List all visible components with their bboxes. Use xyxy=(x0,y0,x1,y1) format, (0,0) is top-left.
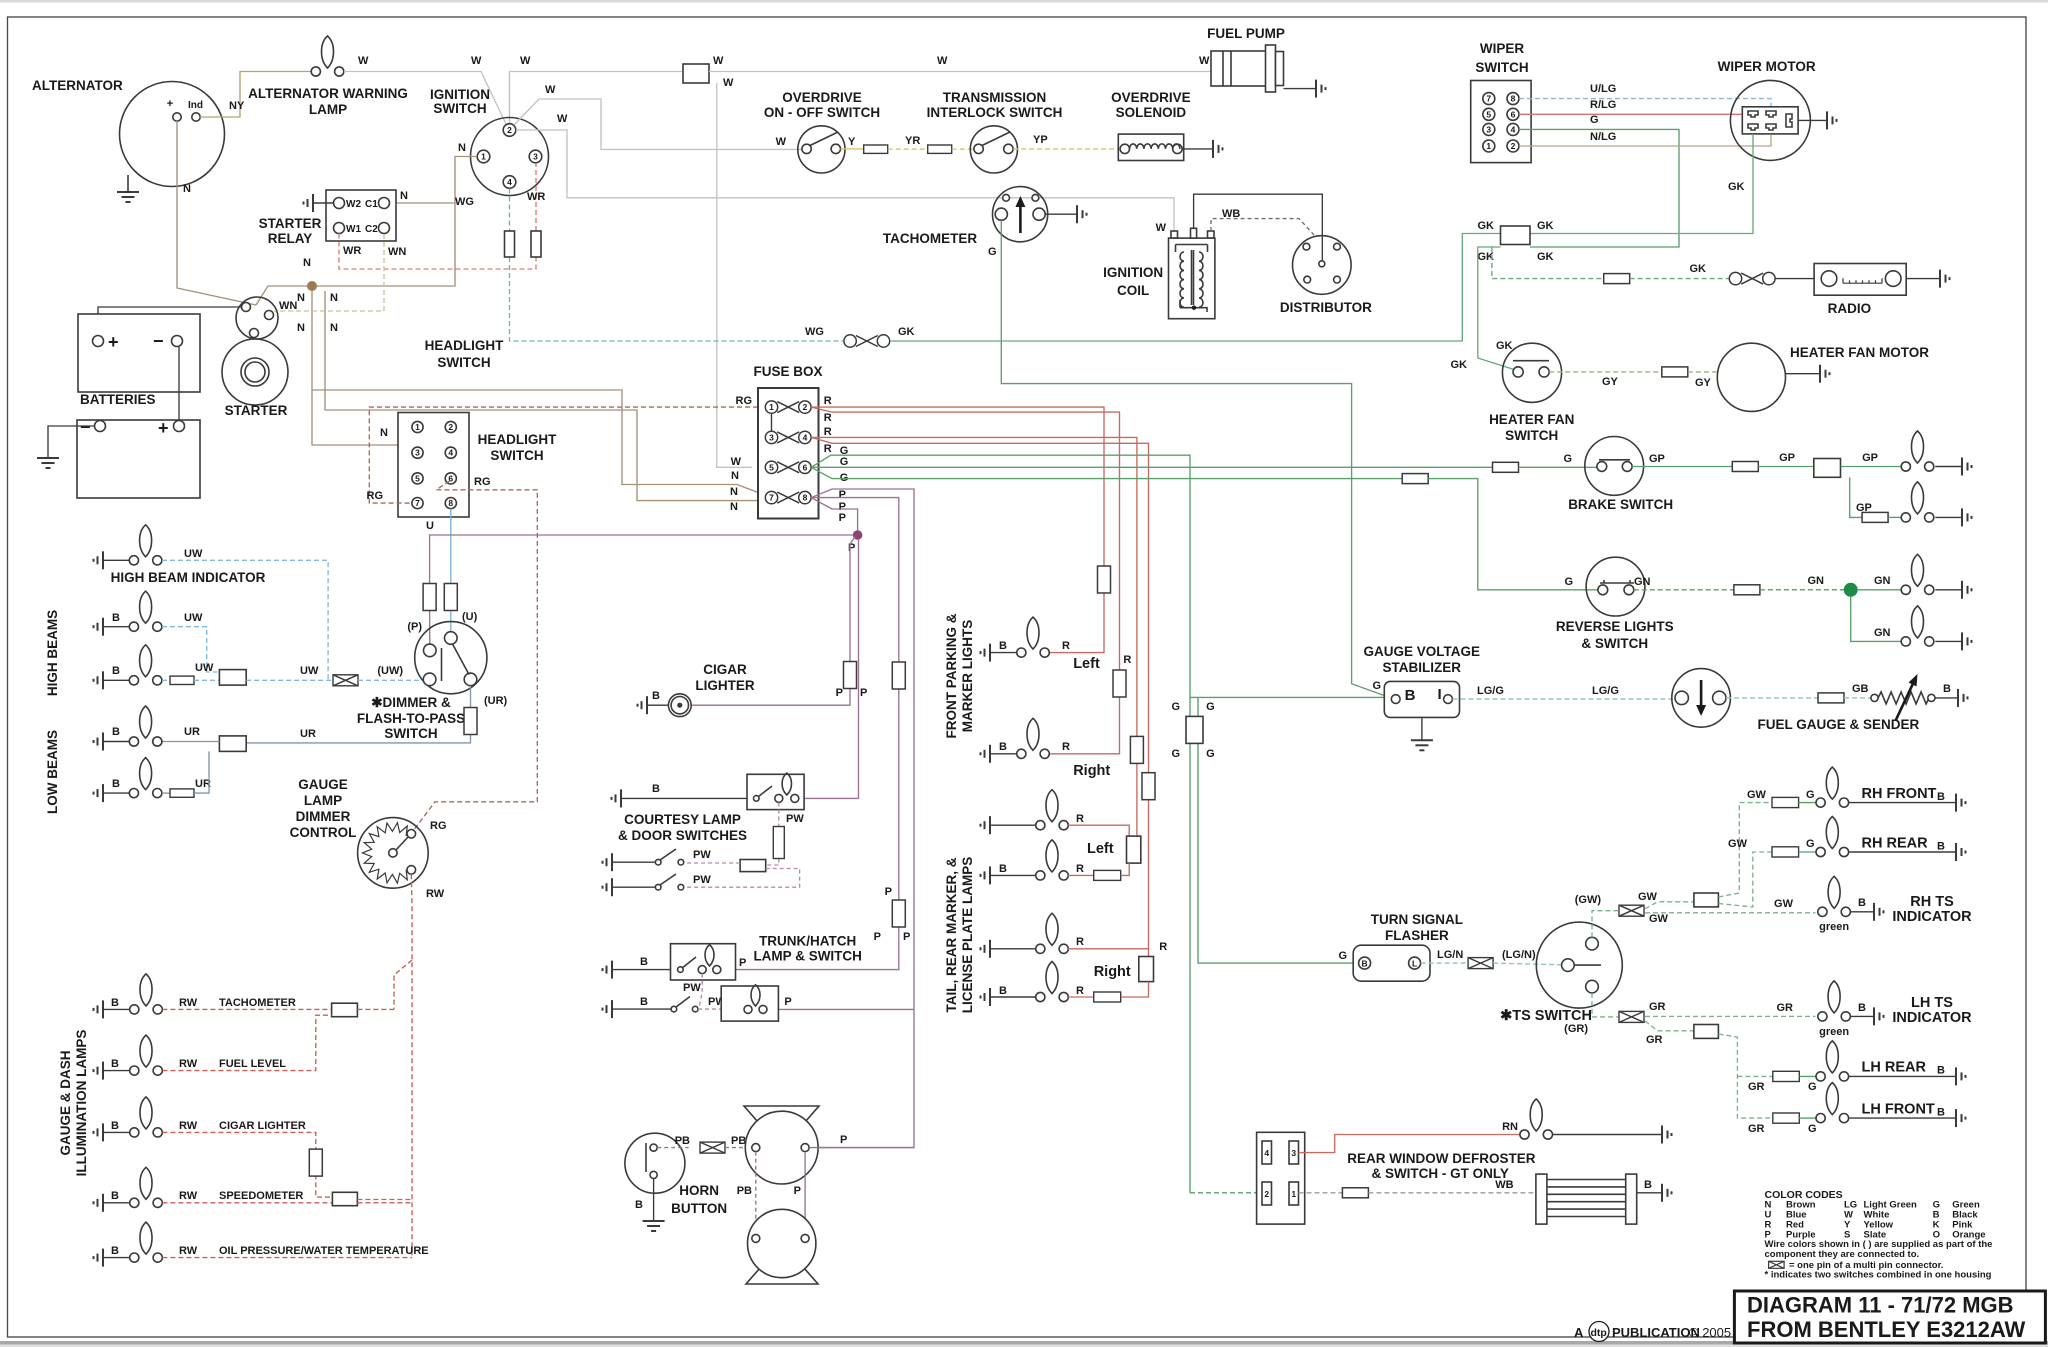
svg-text:N: N xyxy=(731,470,739,482)
wire P branch1 tap to license box xyxy=(778,1008,914,1010)
svg-text:B: B xyxy=(1858,897,1866,909)
svg-text:Ind: Ind xyxy=(188,100,203,111)
ground wiper motor xyxy=(1827,111,1837,129)
svg-text:SWITCH: SWITCH xyxy=(437,355,490,370)
wire N starter relay C1 to N bus xyxy=(390,202,455,204)
svg-text:N: N xyxy=(183,183,191,195)
svg-text:N: N xyxy=(297,322,305,334)
wire UR box to low beam 1 xyxy=(162,741,219,743)
svg-text:N: N xyxy=(400,190,408,202)
svg-text:B: B xyxy=(640,996,648,1008)
svg-text:LH FRONT: LH FRONT xyxy=(1862,1102,1935,1118)
svg-text:BRAKE SWITCH: BRAKE SWITCH xyxy=(1568,497,1673,512)
svg-text:B: B xyxy=(1937,841,1945,853)
defroster switch connector xyxy=(1257,1132,1305,1224)
svg-text:B: B xyxy=(1644,1179,1652,1191)
high beam lamp 2 xyxy=(129,645,162,685)
wire GP to lamp xyxy=(1888,516,1901,518)
svg-text:REVERSE LIGHTS: REVERSE LIGHTS xyxy=(1556,619,1674,634)
wire solenoid to ground xyxy=(1182,148,1213,150)
svg-text:G: G xyxy=(840,456,849,468)
svg-text:WG: WG xyxy=(455,196,474,208)
svg-text:3: 3 xyxy=(1486,124,1491,134)
wire N/LG wiper switch pin2 to motor xyxy=(1519,135,1771,146)
wire G to LH FRONT lamp xyxy=(1799,1117,1815,1119)
wire defroster grid to ground xyxy=(1637,1192,1662,1194)
svg-text:RG: RG xyxy=(430,820,447,832)
publication mark xyxy=(1574,1322,1731,1342)
svg-text:W: W xyxy=(937,55,948,67)
svg-text:GK: GK xyxy=(1451,359,1468,371)
svg-text:B: B xyxy=(112,612,120,624)
wire fuse link 1-3 xyxy=(771,413,773,431)
svg-text:G: G xyxy=(1564,576,1573,588)
connector P trunk upper xyxy=(892,662,905,689)
wire G fuse pin6 to brake switch xyxy=(811,466,1492,468)
svg-text:GR: GR xyxy=(1646,1034,1663,1046)
lamp tail right D xyxy=(1036,962,1069,1002)
svg-text:1: 1 xyxy=(1486,141,1491,151)
svg-text:GAUGE & DASH: GAUGE & DASH xyxy=(58,1050,73,1155)
svg-text:8: 8 xyxy=(448,498,453,508)
svg-text:STABILIZER: STABILIZER xyxy=(1383,660,1462,675)
connector RH FRONT fuse xyxy=(1772,797,1799,807)
svg-text:GAUGE VOLTAGE: GAUGE VOLTAGE xyxy=(1364,644,1481,659)
wire W warning lamp to ignition pin2 xyxy=(344,72,506,125)
svg-text:YR: YR xyxy=(905,135,920,147)
svg-text:RADIO: RADIO xyxy=(1828,301,1872,316)
svg-text:N: N xyxy=(458,142,466,154)
svg-text:G: G xyxy=(1590,114,1599,126)
wire RW fuel level lamp xyxy=(162,1015,331,1070)
svg-text:HIGH BEAMS: HIGH BEAMS xyxy=(45,610,60,696)
wire WB defroster pin1 to element xyxy=(1299,1192,1343,1194)
svg-text:(UR): (UR) xyxy=(484,695,508,707)
ground overdrive solenoid xyxy=(1213,140,1223,158)
svg-text:HIGH BEAM INDICATOR: HIGH BEAM INDICATOR xyxy=(111,570,266,585)
high beam indicator lamp xyxy=(129,525,162,565)
svg-text:R: R xyxy=(1123,654,1131,666)
ground fuel pump xyxy=(1316,80,1326,98)
svg-text:GK: GK xyxy=(1496,340,1513,352)
headlight switch xyxy=(398,413,469,518)
wire YP interlock to solenoid xyxy=(1013,148,1118,150)
wire RW box to vertical xyxy=(357,1008,394,1010)
svg-text:P: P xyxy=(885,886,892,898)
wire GW bowtie up to connector xyxy=(1645,902,1694,909)
svg-text:GK: GK xyxy=(1537,251,1554,263)
svg-text:B: B xyxy=(999,985,1007,997)
svg-text:1: 1 xyxy=(769,402,774,412)
wire U headlight pin8 to dimmer switch xyxy=(450,509,452,585)
svg-text:P: P xyxy=(903,931,910,943)
svg-text:GW: GW xyxy=(1728,838,1748,850)
door switch license xyxy=(671,997,698,1012)
svg-text:W: W xyxy=(731,456,742,468)
svg-text:HEATER FAN: HEATER FAN xyxy=(1489,412,1574,427)
svg-text:1: 1 xyxy=(1291,1189,1296,1199)
svg-text:GN: GN xyxy=(1874,575,1891,587)
svg-text:G: G xyxy=(988,246,997,258)
svg-text:TACHOMETER: TACHOMETER xyxy=(219,997,296,1009)
lamp tachometer illumination xyxy=(130,974,163,1014)
svg-text:TACHOMETER: TACHOMETER xyxy=(883,231,977,246)
connector WG GK bowtie xyxy=(844,335,890,347)
svg-text:PW: PW xyxy=(683,982,701,994)
wire heater motor to ground xyxy=(1786,373,1821,375)
fuse 7-8 xyxy=(765,491,811,503)
svg-text:N: N xyxy=(730,501,738,513)
ground tachometer xyxy=(1077,205,1087,223)
svg-text:+: + xyxy=(108,332,119,352)
svg-text:3: 3 xyxy=(415,448,420,458)
svg-text:G: G xyxy=(1808,1081,1817,1093)
connector WR xyxy=(531,231,541,257)
svg-text:N: N xyxy=(330,322,338,334)
connector RH REAR fuse xyxy=(1772,847,1799,857)
wire high beam 2 to fuse xyxy=(162,679,170,681)
wire G fuse pin6 to reverse switch xyxy=(811,467,1402,478)
ground heater fan motor xyxy=(1820,365,1830,383)
svg-text:N/LG: N/LG xyxy=(1590,131,1616,143)
wire GK bowtie to right xyxy=(890,234,1502,342)
title block xyxy=(1734,1291,2045,1343)
wire U/LG wiper switch pin8 to motor xyxy=(1519,99,1771,110)
svg-text:HEADLIGHT: HEADLIGHT xyxy=(425,338,504,353)
svg-text:green: green xyxy=(1819,921,1849,933)
svg-text:7: 7 xyxy=(769,493,774,503)
lamp stop left xyxy=(1901,482,1934,522)
svg-text:W: W xyxy=(520,55,531,67)
lamp fuel level illumination xyxy=(130,1035,163,1075)
svg-text:R: R xyxy=(824,395,832,407)
svg-text:UW: UW xyxy=(300,665,319,677)
svg-text:W: W xyxy=(358,55,369,67)
wire WB coil to distributor xyxy=(1211,219,1314,235)
svg-text:GN: GN xyxy=(1874,627,1891,639)
svg-text:B: B xyxy=(1362,959,1368,969)
wire coil tower to distributor xyxy=(1194,194,1323,261)
wire WN relay C2 to starter solenoid xyxy=(274,234,384,311)
connector tail right D xyxy=(1094,992,1121,1002)
fuse 1-2 xyxy=(765,401,811,413)
wire (GR) TS switch to bowtie xyxy=(1592,993,1618,1017)
wire B horn button to ground xyxy=(653,1179,655,1222)
wire YR connector to connector xyxy=(888,148,928,150)
svg-text:B: B xyxy=(635,1199,643,1211)
svg-text:RW: RW xyxy=(179,1058,198,1070)
wire UR low beam2 to box xyxy=(194,751,209,793)
connector WB xyxy=(1342,1188,1368,1198)
svg-text:L: L xyxy=(1412,959,1417,969)
connector PB xyxy=(700,1142,725,1153)
svg-text:FUEL PUMP: FUEL PUMP xyxy=(1207,26,1285,41)
svg-text:B: B xyxy=(1943,683,1951,695)
wire PW box to door switch 1 xyxy=(685,862,740,864)
svg-text:Left: Left xyxy=(1073,656,1100,672)
wire cigar lighter to ground xyxy=(647,704,668,706)
svg-text:SPEEDOMETER: SPEEDOMETER xyxy=(219,1190,303,1202)
wire GY connector to heater motor xyxy=(1688,371,1718,373)
lamp RN defroster indicator xyxy=(1520,1099,1553,1139)
wire P fuse pin8 branch1 to license lamp and horn xyxy=(810,489,915,1148)
wire LG/N flasher to connector xyxy=(1421,962,1467,964)
wire R2 fuse pin2 to front parking right xyxy=(811,407,1119,754)
svg-text:RH REAR: RH REAR xyxy=(1862,836,1929,852)
wire W bus to fuel pump xyxy=(709,71,1211,73)
connector box door switches xyxy=(740,860,766,872)
svg-text:WIPER MOTOR: WIPER MOTOR xyxy=(1718,59,1816,74)
connector P xyxy=(423,584,436,611)
high beam lamp 1 xyxy=(129,591,162,631)
svg-text:W1: W1 xyxy=(346,224,361,235)
svg-text:(UW): (UW) xyxy=(377,665,403,677)
svg-text:R/LG: R/LG xyxy=(1590,99,1616,111)
svg-text:© 2005: © 2005 xyxy=(1689,1325,1731,1340)
svg-text:COURTESY LAMP: COURTESY LAMP xyxy=(624,812,741,827)
svg-text:GP: GP xyxy=(1649,453,1665,465)
svg-text:UW: UW xyxy=(184,548,203,560)
svg-text:W: W xyxy=(545,84,556,96)
connector U xyxy=(444,584,457,611)
svg-text:W: W xyxy=(557,113,568,125)
svg-text:DISTRIBUTOR: DISTRIBUTOR xyxy=(1280,300,1372,315)
svg-text:B: B xyxy=(111,1245,119,1257)
svg-text:RG: RG xyxy=(736,395,753,407)
horn lower xyxy=(746,1209,818,1284)
svg-text:1: 1 xyxy=(481,152,486,162)
wire G fuse pin6 to stabilizer flasher defroster xyxy=(811,455,1190,1193)
svg-text:RG: RG xyxy=(367,490,384,502)
svg-text:DIAGRAM 11 - 71/72 MGB: DIAGRAM 11 - 71/72 MGB xyxy=(1747,1293,2014,1318)
svg-text:PB: PB xyxy=(737,1185,752,1197)
svg-text:CONTROL: CONTROL xyxy=(290,825,357,840)
svg-text:G: G xyxy=(1206,748,1215,760)
wire GY heater switch to motor xyxy=(1549,371,1662,373)
svg-text:GN: GN xyxy=(1808,575,1825,587)
wire P junction to courtesy lamp xyxy=(804,539,858,798)
lamp alternator warning xyxy=(311,36,344,76)
connector GP fuse xyxy=(1732,462,1758,472)
svg-text:MARKER LIGHTS: MARKER LIGHTS xyxy=(960,620,975,733)
svg-text:LG/N: LG/N xyxy=(1437,949,1463,961)
door switch 2 xyxy=(655,874,683,890)
svg-text:N: N xyxy=(330,292,338,304)
svg-text:IGNITION: IGNITION xyxy=(1103,265,1163,280)
wire GN junction to reverse lamp lower xyxy=(1851,597,1902,642)
svg-text:N: N xyxy=(380,427,388,439)
svg-text:R: R xyxy=(1062,741,1070,753)
wire RN defroster pin3 to lamp xyxy=(1299,1135,1521,1153)
svg-text:WR: WR xyxy=(527,191,545,203)
svg-text:5: 5 xyxy=(1486,109,1491,119)
lamp reverse lower xyxy=(1901,606,1934,646)
wire battery1 + to starter xyxy=(98,307,242,335)
connector G reverse xyxy=(1402,474,1428,484)
svg-text:GW: GW xyxy=(1649,913,1669,925)
wire R tail right D xyxy=(1068,996,1094,998)
svg-text:5: 5 xyxy=(415,473,420,483)
svg-text:W: W xyxy=(723,77,734,89)
svg-text:W: W xyxy=(471,55,482,67)
connector GB xyxy=(1818,693,1844,703)
svg-text:B: B xyxy=(111,1120,119,1132)
connector UW multipin xyxy=(333,675,358,686)
svg-text:(U): (U) xyxy=(462,611,478,623)
connector high beam xyxy=(170,676,194,684)
wire P fuse pin8 branch2 to trunk xyxy=(736,498,899,970)
brake switch xyxy=(1585,437,1644,496)
connector R2 xyxy=(1113,670,1126,697)
wire G to LH REAR lamp xyxy=(1799,1075,1815,1077)
svg-text:B: B xyxy=(112,726,120,738)
svg-text:R: R xyxy=(824,443,832,455)
wire Y overdrive to connector xyxy=(841,148,864,150)
arrow tachometer xyxy=(1019,204,1022,233)
svg-text:YP: YP xyxy=(1033,134,1048,146)
svg-text:Y: Y xyxy=(848,136,856,148)
wire GK tap to radio xyxy=(1492,247,1605,279)
svg-text:GW: GW xyxy=(1747,789,1767,801)
heater fan switch xyxy=(1502,343,1561,402)
TS switch xyxy=(1536,922,1622,1008)
svg-text:IGNITION: IGNITION xyxy=(430,87,490,102)
svg-text:LH TS: LH TS xyxy=(1911,995,1953,1011)
svg-text:GK: GK xyxy=(1478,220,1495,232)
fuse 5-6 xyxy=(765,461,811,473)
connector R4 xyxy=(1142,773,1155,800)
svg-text:UW: UW xyxy=(195,662,214,674)
connector G 2pin xyxy=(1186,716,1203,743)
svg-text:Left: Left xyxy=(1087,841,1114,857)
svg-text:GAUGE: GAUGE xyxy=(298,777,348,792)
svg-text:TRANSMISSION: TRANSMISSION xyxy=(943,90,1047,105)
svg-text:PW: PW xyxy=(693,874,711,886)
svg-text:GP: GP xyxy=(1779,452,1795,464)
wire RW dimmer control down xyxy=(410,874,413,1257)
svg-text:N: N xyxy=(730,486,738,498)
wire PB connector to horn relay xyxy=(725,1147,752,1149)
svg-text:2: 2 xyxy=(1511,141,1516,151)
wire R3 fuse pin4 to tail left xyxy=(811,437,1137,836)
lamp front parking left xyxy=(1017,617,1050,657)
wire R4 fuse pin4 to tail right xyxy=(811,437,1148,956)
wire R/LG wiper switch pin6 to motor xyxy=(1519,113,1742,115)
wire B trunk to ground xyxy=(612,969,671,971)
svg-text:3: 3 xyxy=(533,152,538,162)
connector GW box xyxy=(1694,893,1719,907)
svg-text:STARTER: STARTER xyxy=(225,403,288,418)
connector GP lower xyxy=(1862,512,1888,522)
svg-text:P: P xyxy=(840,1134,847,1146)
svg-text:LAMP: LAMP xyxy=(309,102,347,117)
connector RW vertical xyxy=(309,1149,322,1176)
wire YR connector to interlock xyxy=(952,148,974,150)
wire PW trunk to license lamp xyxy=(699,974,702,1008)
svg-text:P: P xyxy=(794,1185,801,1197)
wire GK fuse to bowtie xyxy=(1630,278,1730,280)
connector LH REAR fuse xyxy=(1773,1071,1800,1081)
svg-text:PB: PB xyxy=(675,1135,690,1147)
svg-text:Right: Right xyxy=(1094,964,1131,980)
connector P cigar xyxy=(844,662,857,689)
svg-text:LAMP: LAMP xyxy=(304,793,342,808)
svg-text:5: 5 xyxy=(769,462,774,472)
svg-text:B: B xyxy=(112,778,120,790)
lamp stop right xyxy=(1901,431,1934,471)
svg-text:GW: GW xyxy=(1774,898,1794,910)
svg-text:LOW BEAMS: LOW BEAMS xyxy=(45,730,60,814)
svg-text:UW: UW xyxy=(184,612,203,624)
wire G fuse to RH REAR lamp xyxy=(1799,851,1816,853)
arrow fuel sender xyxy=(1896,682,1914,720)
svg-text:FUSE BOX: FUSE BOX xyxy=(753,364,822,379)
svg-text:4: 4 xyxy=(1264,1148,1269,1158)
connector tail right pair xyxy=(1139,957,1154,982)
svg-text:UR: UR xyxy=(300,728,316,740)
reverse lights switch xyxy=(1586,557,1645,616)
wire P fuse pin8 branch3 to junction dot xyxy=(811,498,857,535)
wire PW switch to license box xyxy=(698,1008,721,1010)
wire B courtesy to ground xyxy=(621,797,747,799)
lamp speedometer illumination xyxy=(130,1167,163,1207)
svg-text:GR: GR xyxy=(1649,1001,1666,1013)
wire GP brake switch to lamps xyxy=(1632,466,1732,468)
wire WR relay W1 to ignition pin3 xyxy=(339,234,536,270)
wire R tail right C xyxy=(1068,948,1148,950)
wire G connector to brake switch xyxy=(1519,466,1598,468)
svg-text:I: I xyxy=(1438,686,1442,703)
svg-text:B: B xyxy=(640,956,648,968)
wire RG headlight pin6 to gauge dimmer xyxy=(413,481,537,831)
svg-text:6: 6 xyxy=(803,462,808,472)
svg-text:CIGAR: CIGAR xyxy=(703,662,747,677)
svg-text:U/LG: U/LG xyxy=(1590,83,1616,95)
svg-text:ILLUMINATION LAMPS: ILLUMINATION LAMPS xyxy=(74,1030,89,1177)
svg-text:LG/G: LG/G xyxy=(1592,685,1619,697)
wire bowtie to radio xyxy=(1775,278,1814,280)
svg-text:B: B xyxy=(111,997,119,1009)
connector YR xyxy=(928,145,952,153)
svg-text:4: 4 xyxy=(448,448,453,458)
svg-text:(P): (P) xyxy=(407,621,422,633)
wire low beam 2 to fuse xyxy=(162,792,170,794)
svg-text:SWITCH: SWITCH xyxy=(1505,428,1558,443)
svg-text:& SWITCH: & SWITCH xyxy=(1581,636,1648,651)
svg-text:P: P xyxy=(784,996,791,1008)
lamp RH FRONT xyxy=(1816,767,1849,807)
wire G fuse to RH FRONT lamp xyxy=(1799,802,1816,804)
svg-text:HEATER FAN MOTOR: HEATER FAN MOTOR xyxy=(1790,345,1929,360)
node GN junction xyxy=(1844,583,1858,597)
svg-text:R: R xyxy=(1076,863,1084,875)
distributor xyxy=(1293,236,1352,295)
dimmer flash-to-pass switch xyxy=(415,622,487,694)
svg-text:PB: PB xyxy=(731,1135,746,1147)
lamp front parking right xyxy=(1017,718,1050,758)
battery 1 xyxy=(78,314,200,392)
svg-text:G: G xyxy=(1563,453,1572,465)
wire tachometer to ground xyxy=(1045,213,1077,215)
svg-text:GW: GW xyxy=(1638,891,1658,903)
svg-text:SWITCH: SWITCH xyxy=(433,101,486,116)
color codes legend xyxy=(1765,1189,1993,1281)
node P junction xyxy=(853,530,863,540)
svg-text:BATTERIES: BATTERIES xyxy=(80,392,156,407)
svg-text:7: 7 xyxy=(415,498,420,508)
ignition switch xyxy=(471,118,549,196)
lamp tail left B xyxy=(1036,840,1069,880)
